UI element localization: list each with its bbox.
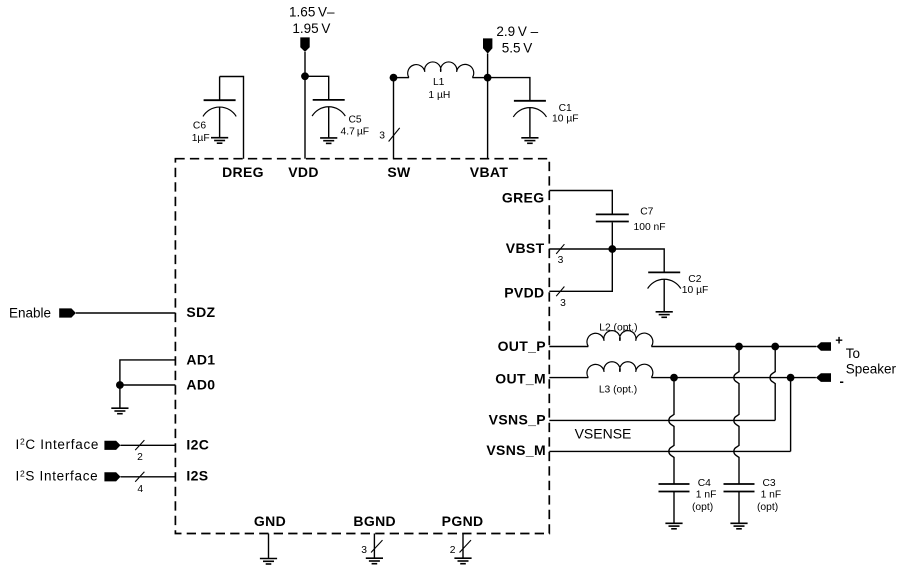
wire SW pin vertical bbox=[393, 78, 395, 159]
ground PGND bbox=[454, 558, 471, 564]
svg-text:3: 3 bbox=[558, 255, 564, 266]
svg-text:Speaker: Speaker bbox=[846, 361, 897, 376]
wire OUT_M node to C4 with hops bbox=[669, 378, 674, 484]
svg-text:-: - bbox=[840, 374, 844, 389]
junction node OUT_P / VSNS_P bbox=[771, 343, 779, 351]
svg-text:10 µF: 10 µF bbox=[552, 114, 579, 125]
svg-text:1µF: 1µF bbox=[192, 133, 210, 144]
inductor L3 bbox=[587, 362, 653, 378]
ground C3 bbox=[730, 523, 747, 529]
inductor L2 bbox=[587, 331, 653, 347]
svg-text:10 µF: 10 µF bbox=[682, 285, 709, 296]
capacitor C4 bbox=[659, 484, 690, 492]
wire DREG pin to C6 bbox=[220, 77, 244, 159]
power flag VBAT 2.9-5.5V bbox=[483, 38, 492, 53]
svg-text:2: 2 bbox=[450, 545, 456, 556]
bus slash PGND (2) bbox=[460, 540, 472, 552]
power flag VDD 1.65-1.95V bbox=[300, 37, 309, 52]
svg-text:PGND: PGND bbox=[442, 513, 484, 529]
svg-text:I2C: I2C bbox=[186, 437, 209, 453]
wire VDD to C5 bbox=[305, 76, 329, 100]
wire OUT_P node to C3 with hops bbox=[734, 347, 739, 485]
wire OUT_P node to VSNS_P with hop bbox=[770, 347, 775, 421]
wire I2C bbox=[121, 444, 176, 446]
ground C6 bbox=[211, 138, 228, 144]
ground BGND bbox=[366, 558, 383, 564]
svg-text:GREG: GREG bbox=[502, 189, 545, 205]
junction node AD0/AD1 bbox=[116, 381, 124, 389]
svg-text:VSNS_M: VSNS_M bbox=[486, 442, 546, 458]
svg-text:1.95 V: 1.95 V bbox=[292, 21, 330, 36]
svg-text:4: 4 bbox=[137, 484, 143, 495]
wire BGND pin bbox=[373, 534, 375, 559]
wire GREG to C7 bbox=[549, 191, 612, 214]
connector speaker minus terminal bbox=[816, 373, 831, 382]
capacitor C3 bbox=[724, 484, 755, 492]
svg-text:C4: C4 bbox=[698, 478, 711, 489]
junction node OUT_M / C4 bbox=[670, 374, 678, 382]
svg-text:AD1: AD1 bbox=[186, 352, 215, 368]
svg-text:(opt): (opt) bbox=[692, 502, 713, 513]
svg-text:I2S: I2S bbox=[186, 468, 208, 484]
junction node VDD bbox=[301, 72, 309, 80]
svg-text:C3: C3 bbox=[763, 478, 776, 489]
bus slash VBST (3) bbox=[556, 244, 564, 254]
bus slash SW (3) bbox=[389, 128, 400, 142]
wire VBAT to C1 bbox=[488, 78, 530, 101]
svg-text:2: 2 bbox=[137, 452, 143, 463]
wire C4 to ground bbox=[673, 492, 675, 524]
svg-text:C6: C6 bbox=[193, 121, 206, 132]
svg-text:C1: C1 bbox=[559, 103, 572, 114]
wire SW to L1 bbox=[394, 77, 409, 79]
svg-text:OUT_P: OUT_P bbox=[498, 338, 546, 354]
ground AD0 bbox=[111, 408, 128, 414]
svg-text:VSENSE: VSENSE bbox=[575, 426, 632, 442]
wire L2 to speaker plus bbox=[651, 346, 816, 348]
bus slash I2C (2) bbox=[135, 440, 144, 450]
wire OUT_P pin to L2 bbox=[549, 346, 588, 348]
capacitor C2 bbox=[648, 272, 681, 311]
svg-text:DREG: DREG bbox=[222, 164, 264, 180]
svg-text:OUT_M: OUT_M bbox=[495, 370, 546, 386]
wire C3 to ground bbox=[738, 492, 740, 524]
svg-text:PVDD: PVDD bbox=[504, 285, 544, 301]
svg-text:3: 3 bbox=[361, 545, 367, 556]
svg-text:VDD: VDD bbox=[288, 164, 319, 180]
wire VBST pin to C2 bbox=[549, 249, 664, 272]
svg-text:GND: GND bbox=[254, 513, 286, 529]
svg-text:AD0: AD0 bbox=[186, 377, 215, 393]
svg-text:+: + bbox=[835, 333, 843, 348]
svg-text:C2: C2 bbox=[688, 274, 701, 285]
svg-text:SW: SW bbox=[387, 164, 411, 180]
svg-text:L3 (opt.): L3 (opt.) bbox=[599, 385, 637, 396]
svg-text:4.7 µF: 4.7 µF bbox=[341, 126, 370, 137]
IC U1 dashed boundary bbox=[175, 159, 549, 534]
wire VBAT pin vertical bbox=[487, 54, 489, 159]
capacitor C1 bbox=[513, 101, 546, 138]
svg-text:C5: C5 bbox=[349, 115, 362, 126]
wire PGND pin bbox=[462, 534, 464, 559]
connector Enable input bbox=[59, 308, 76, 317]
wire OUT_M pin to L3 bbox=[549, 377, 588, 379]
svg-text:100 nF: 100 nF bbox=[634, 222, 666, 233]
svg-text:(opt): (opt) bbox=[757, 502, 778, 513]
svg-text:2.9 V –: 2.9 V – bbox=[496, 24, 538, 39]
wire VSNS_M pin bbox=[549, 450, 790, 452]
junction node SW bbox=[390, 74, 398, 82]
svg-text:5.5 V: 5.5 V bbox=[502, 41, 532, 56]
bus slash PVDD (3) bbox=[556, 287, 564, 297]
svg-text:L2 (opt.): L2 (opt.) bbox=[599, 323, 637, 334]
svg-text:VBAT: VBAT bbox=[470, 164, 509, 180]
capacitor C5 bbox=[312, 100, 345, 138]
ground C4 bbox=[665, 523, 682, 529]
wire L3 to speaker minus bbox=[651, 377, 816, 379]
svg-text:1.65 V–: 1.65 V– bbox=[289, 4, 335, 19]
wire AD0 bbox=[120, 384, 175, 386]
wire VDD pin vertical bbox=[304, 52, 306, 159]
wire GND pin bbox=[268, 534, 270, 559]
ground GND bbox=[260, 559, 277, 565]
svg-text:1 nF: 1 nF bbox=[696, 489, 717, 500]
svg-text:VBST: VBST bbox=[506, 240, 545, 256]
bus slash I2S (4) bbox=[135, 472, 144, 482]
capacitor C7 bbox=[596, 214, 629, 221]
bus slash BGND (3) bbox=[371, 540, 383, 552]
svg-text:L1: L1 bbox=[433, 77, 445, 88]
junction node VBAT bbox=[484, 74, 492, 82]
svg-text:To: To bbox=[846, 346, 860, 361]
svg-text:1 µH: 1 µH bbox=[428, 90, 450, 101]
wire VSNS_P pin bbox=[549, 419, 775, 421]
svg-text:I2S Interface: I2S Interface bbox=[16, 468, 99, 483]
svg-text:SDZ: SDZ bbox=[186, 304, 215, 320]
ground C5 bbox=[320, 138, 337, 144]
svg-text:Enable: Enable bbox=[9, 306, 51, 321]
svg-text:3: 3 bbox=[560, 298, 566, 309]
wire C7 to VBST node bbox=[611, 222, 613, 249]
svg-text:1 nF: 1 nF bbox=[761, 489, 782, 500]
wire L1 to VBAT bbox=[472, 77, 487, 79]
connector speaker plus terminal bbox=[816, 342, 831, 351]
wire I2S bbox=[121, 476, 176, 478]
capacitor C6 bbox=[203, 77, 236, 138]
svg-text:I2C Interface: I2C Interface bbox=[16, 437, 100, 452]
junction node VBST-C7-PVDD bbox=[608, 245, 616, 253]
svg-text:VSNS_P: VSNS_P bbox=[489, 411, 546, 427]
wire PVDD to VBST node bbox=[549, 249, 612, 291]
ground C1 bbox=[521, 138, 538, 144]
wire Enable to SDZ bbox=[76, 312, 175, 314]
wire AD1 bbox=[120, 360, 175, 385]
inductor L1 bbox=[408, 62, 474, 78]
wire AD0 node to ground bbox=[119, 385, 121, 408]
svg-text:C7: C7 bbox=[640, 206, 653, 217]
junction node OUT_P / C3 bbox=[735, 343, 743, 351]
ground C2 bbox=[656, 312, 673, 318]
junction node OUT_M / VSNS_M bbox=[787, 374, 795, 382]
svg-text:3: 3 bbox=[379, 131, 385, 142]
wire OUT_M node to VSNS_M bbox=[790, 378, 792, 452]
svg-text:BGND: BGND bbox=[353, 513, 396, 529]
connector I2C input bbox=[104, 441, 120, 450]
connector I2S input bbox=[104, 472, 120, 481]
